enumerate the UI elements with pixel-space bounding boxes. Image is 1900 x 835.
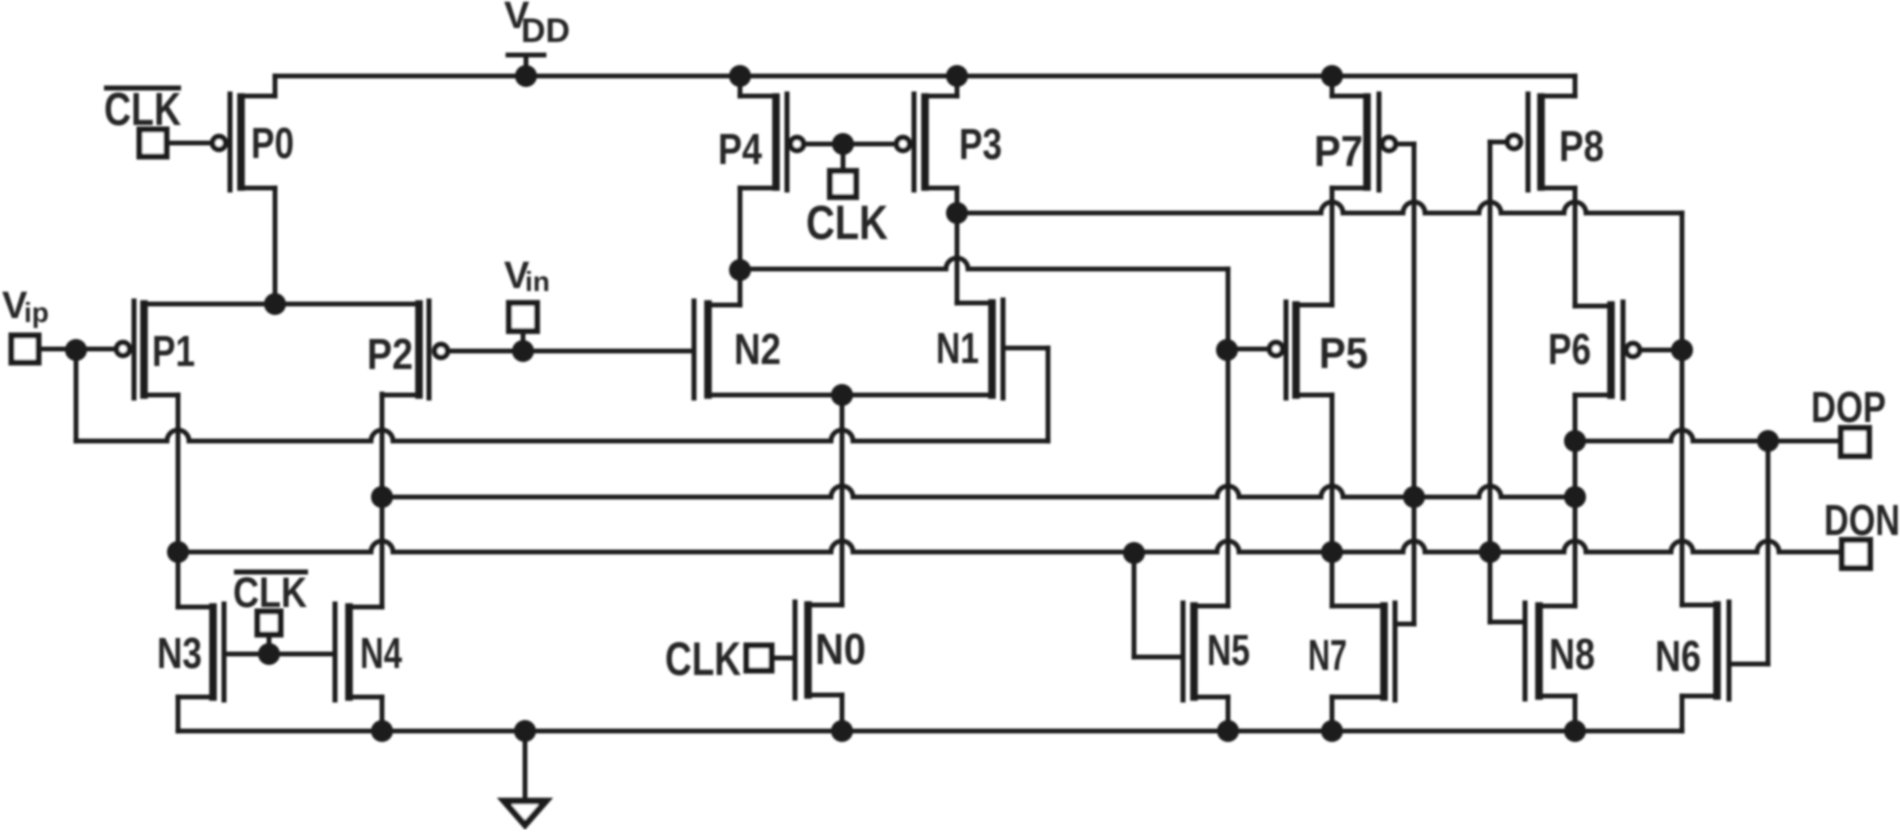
svg-text:P6: P6 — [1548, 325, 1591, 374]
svg-text:P2: P2 — [367, 330, 413, 379]
svg-text:P4: P4 — [718, 125, 762, 174]
svg-text:P3: P3 — [959, 120, 1002, 169]
svg-text:P0: P0 — [251, 119, 294, 168]
svg-text:DON: DON — [1824, 496, 1900, 545]
svg-text:N2: N2 — [734, 325, 781, 374]
svg-text:N8: N8 — [1549, 630, 1595, 679]
svg-text:CLK: CLK — [233, 569, 307, 617]
svg-text:ip: ip — [24, 297, 49, 328]
svg-text:P1: P1 — [152, 327, 195, 376]
svg-text:P5: P5 — [1319, 329, 1368, 378]
svg-text:N5: N5 — [1207, 626, 1250, 675]
svg-text:N1: N1 — [936, 324, 979, 373]
svg-text:in: in — [525, 266, 550, 297]
svg-text:CLK: CLK — [665, 632, 741, 685]
svg-text:N7: N7 — [1308, 631, 1347, 680]
svg-text:P7: P7 — [1314, 127, 1363, 176]
svg-text:P8: P8 — [1559, 122, 1604, 171]
svg-text:N4: N4 — [360, 629, 402, 678]
svg-text:CLK: CLK — [806, 197, 888, 250]
svg-text:N6: N6 — [1655, 632, 1701, 681]
svg-text:DD: DD — [521, 12, 570, 50]
svg-text:N0: N0 — [815, 625, 866, 674]
svg-text:CLK: CLK — [104, 83, 181, 135]
svg-text:N3: N3 — [157, 629, 202, 678]
svg-text:DOP: DOP — [1811, 383, 1886, 432]
